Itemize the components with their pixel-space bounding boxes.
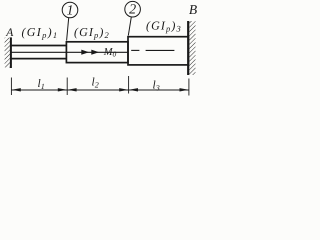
right wall hatching xyxy=(189,21,195,75)
dim arrow l2 right xyxy=(119,88,128,91)
dimension extension line at step 1 xyxy=(66,78,68,96)
shaft segment 1 (bottom line) xyxy=(10,58,67,60)
shaft segment 1 (top line) xyxy=(10,45,67,47)
svg-text:(GIp)3: (GIp)3 xyxy=(146,19,182,34)
svg-text:A: A xyxy=(5,27,14,39)
leader from circle 1 xyxy=(67,18,69,41)
dimension extension line at step 2 xyxy=(128,76,130,94)
svg-text:B: B xyxy=(189,2,197,17)
shaft segment 3 outline xyxy=(128,37,188,65)
svg-text:(GIp)2: (GIp)2 xyxy=(74,25,110,40)
leader from circle 2 xyxy=(128,17,131,36)
section circle 2 xyxy=(125,1,141,17)
dimension extension line at wall B xyxy=(188,79,190,96)
svg-text:1: 1 xyxy=(67,4,74,19)
segment 3 centerline dashes xyxy=(131,49,139,51)
dim arrow l3 right xyxy=(180,88,189,91)
right wall line xyxy=(187,21,189,75)
dim arrow l2 left xyxy=(67,88,76,91)
left wall line xyxy=(10,37,12,68)
svg-text:M0: M0 xyxy=(103,47,117,58)
section circle 1 xyxy=(62,2,78,18)
dimension extension line at wall A xyxy=(10,78,12,96)
left wall hatching xyxy=(5,38,11,68)
svg-text:2: 2 xyxy=(129,3,136,18)
shaft segment 2 outline xyxy=(66,42,128,63)
dim arrow l1 right xyxy=(58,88,67,91)
torque vector line M0 xyxy=(11,51,128,53)
torque arrowhead 1 xyxy=(81,50,89,55)
torque arrowhead 2 xyxy=(91,50,99,55)
dim arrow l1 left xyxy=(12,88,21,91)
dim arrow l3 left xyxy=(129,88,138,91)
dimension line xyxy=(11,89,189,91)
